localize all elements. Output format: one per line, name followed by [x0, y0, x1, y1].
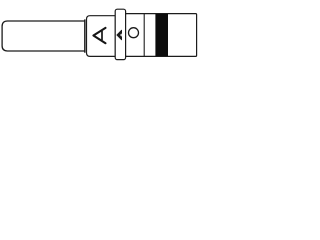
barrel end step line [84, 19, 86, 52]
rear cylinder (crimp barrel) [126, 14, 197, 57]
mid body section (rounded) [87, 16, 116, 57]
big letter A (rotated, apex left) [93, 28, 105, 43]
small letter A on flange (rotated, apex left) [117, 30, 122, 40]
black color band [155, 14, 168, 56]
inspection hole circle [129, 28, 139, 38]
background [0, 0, 200, 72]
divider line [143, 14, 145, 57]
flange collar [115, 9, 125, 59]
contact front barrel (socket sleeve) [2, 21, 85, 51]
